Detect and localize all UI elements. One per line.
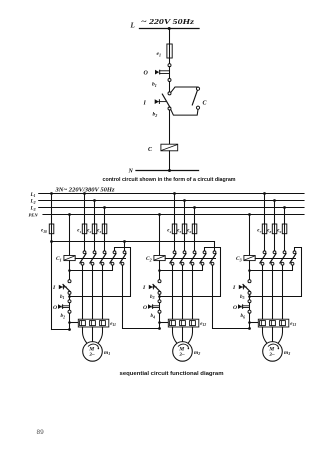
wire bus line L3 <box>39 207 304 209</box>
mechanical linkage line contactor C2 <box>165 258 215 260</box>
thermal overload relay e12 <box>168 319 199 327</box>
auxiliary holding contact C (NO) <box>196 87 199 90</box>
contactor coil C3 <box>244 256 255 261</box>
wire aux hold contact bottom to coil node branch 3 <box>250 265 293 270</box>
node junction on N line <box>168 169 171 172</box>
svg-text:I: I <box>142 285 146 291</box>
contactor C1 main contact 1 <box>83 251 86 254</box>
pushbutton b1 (O stop button, NC) <box>168 64 171 67</box>
svg-text:3~: 3~ <box>178 353 184 358</box>
svg-text:M: M <box>88 346 95 352</box>
fuse e5 <box>182 224 187 234</box>
wire control bus down to seq contact top branch 1 <box>124 242 126 251</box>
node bottom feed branch 1 <box>68 328 71 331</box>
wire main contact 2 to thermal relay branch 2 <box>182 265 184 319</box>
wire b1 to b2 <box>169 82 171 93</box>
svg-text:C: C <box>203 101 208 107</box>
contactor C3 main contact 1 <box>263 251 266 254</box>
svg-text:I: I <box>143 101 147 107</box>
svg-text:b6: b6 <box>241 313 246 319</box>
wire main contact 2 to thermal relay branch 1 <box>92 265 94 319</box>
svg-text:e10: e10 <box>41 229 47 234</box>
stop pushbutton b6 (O, NC) <box>248 300 251 303</box>
wire fan-in right to motor m3 <box>278 327 283 344</box>
node below start button branch 1 <box>68 295 71 298</box>
svg-text:C: C <box>148 147 153 153</box>
node L3 tap branch 1 <box>103 206 106 209</box>
svg-text:O: O <box>144 71 149 77</box>
node thermal contact entry branch 2 <box>158 321 161 324</box>
svg-text:sequential circuit functional: sequential circuit functional diagram <box>120 371 224 377</box>
svg-text:L2: L2 <box>30 199 36 205</box>
svg-text:O: O <box>53 305 57 311</box>
wire rail to branch1 bottom node <box>52 329 70 331</box>
wire seq contact bottom down to next branch feed <box>213 265 250 328</box>
rotation arrow motor m3 <box>268 344 278 348</box>
svg-text:M: M <box>178 346 185 352</box>
wire coil bottom to start button b3 <box>159 261 161 280</box>
svg-text:N: N <box>128 169 134 175</box>
contactor C1 aux contact seq <box>123 251 126 254</box>
svg-text:e13: e13 <box>290 322 296 327</box>
wire coil bottom to start button b5 <box>249 261 251 280</box>
node PEN tap branch 1 <box>68 213 71 216</box>
wire bus line L2 <box>39 200 304 202</box>
wire L3 down through fuse e9 to main contact 3 <box>284 208 286 252</box>
wire PEN down to coil C2 <box>159 215 161 256</box>
wire control bus down to seq contact top branch 2 <box>214 242 216 251</box>
wire stop button down to bottom node branch 2 <box>159 313 161 328</box>
fuse e1 <box>167 44 172 58</box>
node L2 tap branch 3 <box>273 199 276 202</box>
wire holding contact C back to main line <box>171 109 198 115</box>
wire aux hold contact top loop branch 3 <box>250 248 302 297</box>
svg-text:89: 89 <box>37 429 45 436</box>
wire control rail down left side <box>51 242 53 330</box>
contactor C2 aux contact hold <box>203 251 206 254</box>
svg-text:control circuit shown in the f: control circuit shown in the form of a c… <box>103 177 236 183</box>
svg-text:b4: b4 <box>151 313 156 319</box>
wire bus line PEN <box>43 214 304 216</box>
node thermal contact entry branch 3 <box>248 321 251 324</box>
wire stop button down to bottom node branch 1 <box>69 313 71 329</box>
svg-text:3~: 3~ <box>268 353 274 358</box>
fuse e10 <box>49 224 54 234</box>
contactor C1 main contact 3 <box>103 251 106 254</box>
node coil bottom branch 3 <box>248 269 251 272</box>
svg-text:b2: b2 <box>153 112 158 118</box>
thermal overload relay e11 <box>78 319 109 327</box>
wire L phase line top <box>140 28 200 30</box>
fuse e9 <box>282 224 287 234</box>
wire stop button down to bottom node branch 3 <box>249 313 251 328</box>
node PEN tap branch 3 <box>248 213 251 216</box>
wire aux hold contact top loop branch 1 <box>70 248 131 297</box>
contactor C2 main contact 3 <box>193 251 196 254</box>
node PEN tap branch 2 <box>158 213 161 216</box>
wire L3 down through fuse e6 to main contact 3 <box>194 208 196 252</box>
svg-text:~ 220V 50Hz: ~ 220V 50Hz <box>141 18 194 26</box>
fuse e2 <box>92 224 97 234</box>
wire fan-in right to motor m1 <box>98 327 103 344</box>
svg-text:e11: e11 <box>110 322 116 327</box>
start pushbutton b3 (I, NO) <box>158 280 161 283</box>
contactor C2 aux contact seq <box>213 251 216 254</box>
wire L3 down through fuse e3 to main contact 3 <box>104 208 106 252</box>
node L1 tap for control fuse e10 <box>50 192 53 195</box>
wire fuse e10 down to control bus <box>51 234 53 242</box>
svg-text:e12: e12 <box>200 322 206 327</box>
node junction on L line <box>168 27 171 30</box>
svg-text:b1: b1 <box>152 82 157 88</box>
fuse e1 <box>82 224 87 234</box>
wire main contact 1 to thermal relay branch 2 <box>172 265 174 319</box>
wire coil bottom to start button b1 <box>69 261 71 280</box>
node L2 tap branch 1 <box>93 199 96 202</box>
wire start button to stop button b4 <box>159 294 161 300</box>
svg-text:e5: e5 <box>177 229 181 234</box>
wire bus line L1 <box>39 193 304 195</box>
contactor coil C1 <box>64 256 75 261</box>
wire seq contact bottom down to next branch feed <box>123 265 160 328</box>
svg-text:m2: m2 <box>194 350 200 356</box>
wire branch up to holding contact C <box>171 87 198 92</box>
wire aux hold contact top loop branch 2 <box>160 248 221 297</box>
stop pushbutton b2 (O, NC) <box>68 300 71 303</box>
rotation arrow motor m1 <box>88 344 98 348</box>
wire main contact 2 to thermal relay branch 3 <box>272 265 274 319</box>
contactor coil C <box>161 144 178 151</box>
svg-text:b5: b5 <box>240 294 245 300</box>
wire start button to stop button b6 <box>249 294 251 300</box>
wire main contact 3 to thermal relay branch 2 <box>192 265 194 319</box>
node control bus corner <box>50 240 53 243</box>
contactor C3 aux contact hold <box>293 251 296 254</box>
contactor C2 main contact 2 <box>183 251 186 254</box>
wire into thermal relay contact branch 1 <box>70 322 79 324</box>
node coil bottom branch 1 <box>68 269 71 272</box>
wire fan-in left to motor m1 <box>83 327 88 344</box>
svg-text:e9: e9 <box>277 229 281 234</box>
wire thermal relay to motor m3 <box>272 327 274 342</box>
motor m2 (M 3~) <box>173 342 193 362</box>
node L1 tap branch 1 <box>83 192 86 195</box>
wire into thermal relay contact branch 2 <box>160 322 169 324</box>
svg-text:e2: e2 <box>87 229 91 234</box>
fuse e3 <box>102 224 107 234</box>
wire b2 to coil C <box>169 110 171 144</box>
contactor C3 main contact 2 <box>273 251 276 254</box>
fuse e6 <box>192 224 197 234</box>
wire control feed bus horizontal <box>52 241 215 243</box>
wire L1 down through fuse e4 to main contact 1 <box>174 194 176 252</box>
svg-text:e1: e1 <box>157 51 161 57</box>
pushbutton b2 (I start button, NO) <box>168 92 171 95</box>
wire L1 down through fuse e1 to main contact 1 <box>84 194 86 252</box>
svg-text:b1: b1 <box>60 294 65 300</box>
wire thermal relay to motor m2 <box>182 327 184 342</box>
node L3 tap branch 3 <box>283 206 286 209</box>
node L3 tap branch 2 <box>193 206 196 209</box>
node bottom feed branch 3 <box>248 327 251 330</box>
contactor C2 main contact 1 <box>173 251 176 254</box>
svg-text:e4: e4 <box>167 229 171 234</box>
svg-text:e1: e1 <box>77 229 81 234</box>
svg-text:I: I <box>232 285 236 291</box>
svg-text:C2: C2 <box>146 256 152 262</box>
svg-text:e8: e8 <box>267 229 271 234</box>
wire L2 down through fuse e5 to main contact 2 <box>184 201 186 252</box>
wire into thermal relay contact branch 3 <box>250 322 259 324</box>
svg-text:e3: e3 <box>97 229 101 234</box>
wire fan-in left to motor m2 <box>173 327 178 344</box>
wire main contact 3 to thermal relay branch 1 <box>102 265 104 319</box>
rotation arrow motor m2 <box>178 344 188 348</box>
svg-text:e6: e6 <box>187 229 191 234</box>
wire fuse e1 to button b1 <box>169 58 171 64</box>
svg-text:m3: m3 <box>284 350 290 356</box>
svg-text:I: I <box>52 285 56 291</box>
wire main contact 1 to thermal relay branch 1 <box>82 265 84 319</box>
wire coil C to N line <box>169 151 171 171</box>
svg-text:M: M <box>268 346 275 352</box>
wire aux hold contact bottom to coil node branch 1 <box>70 265 113 270</box>
node L2 tap branch 2 <box>183 199 186 202</box>
wire L1 down through fuse e10 <box>51 194 53 234</box>
motor m1 (M 3~) <box>83 342 103 362</box>
mechanical linkage line contactor C3 <box>255 258 295 260</box>
wire PEN down to coil C1 <box>69 215 71 256</box>
start pushbutton b1 (I, NO) <box>68 280 71 283</box>
fuse e8 <box>272 224 277 234</box>
svg-text:O: O <box>233 305 237 311</box>
wire fan-in right to motor m2 <box>188 327 193 344</box>
start pushbutton b5 (I, NO) <box>248 280 251 283</box>
node below start button branch 3 <box>248 295 251 298</box>
svg-text:3~: 3~ <box>88 353 94 358</box>
node coil bottom branch 2 <box>158 269 161 272</box>
motor m3 (M 3~) <box>263 342 283 362</box>
svg-text:L: L <box>130 22 135 30</box>
svg-text:b2: b2 <box>61 313 66 319</box>
svg-text:m1: m1 <box>104 350 110 356</box>
wire main contact 3 to thermal relay branch 3 <box>282 265 284 319</box>
node below start button branch 2 <box>158 295 161 298</box>
wire aux hold contact bottom to coil node branch 2 <box>160 265 203 270</box>
wire main contact 1 to thermal relay branch 3 <box>262 265 264 319</box>
contactor C1 aux contact hold <box>113 251 116 254</box>
wire L2 down through fuse e2 to main contact 2 <box>94 201 96 252</box>
node thermal contact entry branch 1 <box>68 321 71 324</box>
wire L2 down through fuse e8 to main contact 2 <box>274 201 276 252</box>
svg-text:PEN: PEN <box>29 212 39 217</box>
svg-text:C1: C1 <box>56 256 62 262</box>
svg-text:L1: L1 <box>30 192 36 198</box>
wire PEN down to coil C3 <box>249 215 251 256</box>
node control bus to seq contact branch 1 <box>123 240 126 243</box>
contactor coil C2 <box>154 256 165 261</box>
node bottom feed branch 2 <box>158 327 161 330</box>
fuse e7 <box>262 224 267 234</box>
fuse e4 <box>172 224 177 234</box>
wire L1 down through fuse e7 to main contact 1 <box>264 194 266 252</box>
svg-text:C3: C3 <box>236 256 242 262</box>
contactor C3 main contact 3 <box>283 251 286 254</box>
stop pushbutton b4 (O, NC) <box>158 300 161 303</box>
svg-text:b3: b3 <box>150 294 155 300</box>
node L1 tap branch 3 <box>263 192 266 195</box>
svg-text:e7: e7 <box>257 229 261 234</box>
mechanical linkage line contactor C1 <box>75 258 125 260</box>
svg-text:L3: L3 <box>30 206 36 212</box>
contactor C1 main contact 2 <box>93 251 96 254</box>
wire start button to stop button b2 <box>69 294 71 300</box>
thermal overload relay e13 <box>258 319 289 327</box>
wire N neutral line <box>136 170 199 172</box>
wire fan-in left to motor m3 <box>263 327 268 344</box>
wire thermal relay to motor m1 <box>92 327 94 342</box>
node L1 tap branch 2 <box>173 192 176 195</box>
wire from L line down through fuse e1 <box>169 29 171 59</box>
svg-text:O: O <box>143 305 147 311</box>
